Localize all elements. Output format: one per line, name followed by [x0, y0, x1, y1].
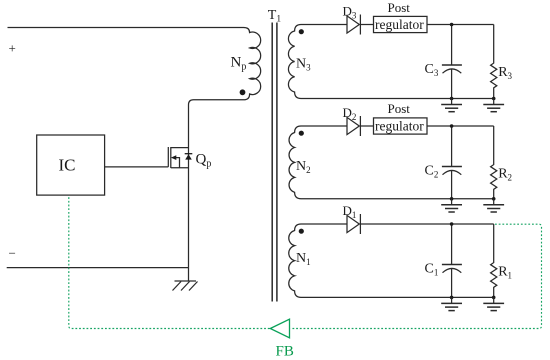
svg-text:IC: IC [59, 156, 76, 175]
svg-text:−: − [9, 246, 16, 261]
svg-text:regulator: regulator [375, 17, 424, 32]
svg-text:Post: Post [388, 101, 411, 116]
svg-text:FB: FB [276, 344, 294, 360]
svg-text:+: + [9, 41, 16, 56]
svg-text:Post: Post [388, 0, 411, 15]
svg-text:regulator: regulator [375, 119, 424, 134]
